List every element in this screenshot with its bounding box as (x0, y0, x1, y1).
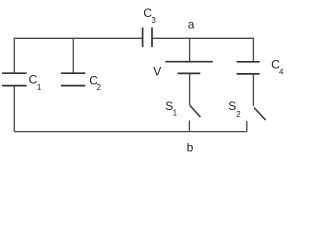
switch S2 blade (254, 108, 266, 121)
wire node-a branch vertical (189, 38, 191, 61)
wire left vertical upper (13, 38, 15, 73)
capacitor C1 (2, 73, 27, 85)
svg-text:4: 4 (279, 68, 284, 77)
wire C4 to switch S2 (252, 74, 254, 106)
svg-text:2: 2 (236, 110, 241, 119)
svg-text:a: a (188, 17, 195, 31)
svg-text:3: 3 (151, 16, 156, 25)
svg-text:2: 2 (97, 83, 102, 92)
svg-text:b: b (187, 141, 194, 155)
svg-text:1: 1 (173, 109, 178, 118)
switch S1 blade (190, 105, 201, 117)
wire battery to switch S1 (189, 73, 191, 105)
wire C2 branch upper (72, 38, 74, 73)
capacitor C4 (237, 62, 260, 74)
battery V (165, 61, 212, 63)
wire bottom horizontal (14, 131, 247, 133)
wire top-right horizontal (153, 37, 254, 39)
wire left vertical lower (13, 86, 15, 132)
switch S1 lower contact (188, 121, 190, 132)
svg-text:1: 1 (37, 83, 42, 92)
switch S2 lower contact (246, 121, 248, 132)
capacitor C3 (143, 28, 152, 48)
wire right vertical upper (252, 38, 254, 62)
svg-text:S: S (228, 99, 236, 113)
svg-text:V: V (153, 64, 161, 78)
capacitor C2 (61, 73, 85, 85)
wire top-left horizontal (14, 37, 142, 39)
